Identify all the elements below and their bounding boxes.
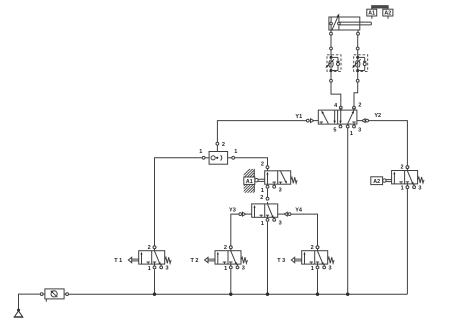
3/2-way roller valve A2 bbox=[392, 165, 424, 192]
svg-text:T 2: T 2 bbox=[191, 258, 199, 264]
pilot Y3 (left) bbox=[229, 208, 251, 217]
svg-text:2: 2 bbox=[261, 162, 264, 168]
svg-text:3: 3 bbox=[418, 185, 421, 191]
junction T1 bbox=[153, 293, 156, 296]
wire T2 port 1 to supply line bbox=[230, 269, 232, 293]
pilot Y4 (right) bbox=[278, 208, 303, 217]
svg-text:2: 2 bbox=[311, 245, 314, 251]
wire T3 port 1 to supply line bbox=[317, 269, 319, 293]
junction 1V5 bbox=[266, 293, 269, 296]
3/2-way manual valve T1 bbox=[114, 245, 171, 272]
wire cylinder right port to flow control 1V2 bbox=[357, 35, 359, 47]
svg-text:3: 3 bbox=[165, 266, 168, 272]
wire 5/2 valve port 1 to supply line bbox=[347, 128, 349, 294]
svg-text:3: 3 bbox=[279, 221, 282, 227]
svg-text:A2: A2 bbox=[384, 11, 391, 17]
shuttle valve 1V4 (OR) bbox=[199, 142, 237, 164]
wire shuttle valve left port to T1 port 2 bbox=[155, 158, 203, 246]
3/2-way roller valve A1 (actuated) bbox=[261, 162, 297, 194]
wire shuttle valve right port to limit valve A1 port 2 bbox=[235, 158, 269, 169]
wire roller valve A2 port 1 to supply line bbox=[406, 189, 408, 295]
roller actuator with label A2 bbox=[371, 177, 392, 185]
svg-text:A1: A1 bbox=[368, 11, 375, 17]
pilot Y2 (right) bbox=[357, 113, 381, 122]
wire pilot Y4 to T3 port 2 bbox=[291, 214, 318, 246]
svg-text:3: 3 bbox=[279, 188, 282, 194]
3/2-way manual valve T3 bbox=[277, 245, 334, 272]
junction 5/2 supply bbox=[346, 293, 349, 296]
wire pilot Y2 to roller valve A2 port 2 bbox=[369, 121, 409, 169]
one-way flow control valve 1V1 bbox=[325, 47, 341, 82]
port labels 5/2 valve bbox=[333, 103, 361, 138]
svg-text:1: 1 bbox=[199, 149, 202, 155]
svg-text:1: 1 bbox=[234, 149, 237, 155]
actuated roller with wall (A1) bbox=[243, 165, 266, 215]
5/2-way double pilot valve 1V3 bbox=[318, 108, 357, 128]
wire valve 1V5 port 1 to supply line bbox=[267, 222, 269, 294]
svg-text:1: 1 bbox=[350, 131, 353, 137]
svg-text:Y3: Y3 bbox=[229, 208, 236, 214]
service unit 0Z (filter/regulator, simplified) bbox=[40, 289, 68, 302]
wire air supply to service unit bbox=[19, 294, 41, 309]
svg-text:1: 1 bbox=[401, 186, 404, 192]
pilot Y1 (left) bbox=[295, 114, 318, 123]
svg-text:A2: A2 bbox=[373, 179, 380, 185]
wire limit valve A1 port 1 to valve 1V5 port 2 bbox=[266, 189, 269, 200]
svg-text:2: 2 bbox=[400, 165, 403, 171]
svg-text:1: 1 bbox=[261, 221, 264, 227]
svg-text:2: 2 bbox=[260, 195, 263, 201]
svg-text:T 1: T 1 bbox=[114, 258, 122, 264]
supply line (manifold) bbox=[69, 293, 408, 295]
svg-text:1: 1 bbox=[148, 266, 151, 272]
svg-text:3: 3 bbox=[242, 266, 245, 272]
3/2-way manual valve T2 bbox=[191, 245, 248, 272]
svg-text:1: 1 bbox=[311, 266, 314, 272]
svg-text:Y1: Y1 bbox=[295, 114, 302, 120]
svg-text:Y4: Y4 bbox=[295, 208, 303, 214]
3/2-way double pilot valve 1V5 bbox=[252, 195, 282, 227]
svg-text:3: 3 bbox=[328, 266, 331, 272]
wire cylinder left port to flow control 1V1 bbox=[330, 35, 332, 47]
one-way flow control valve 1V2 bbox=[352, 47, 368, 82]
svg-text:A1: A1 bbox=[246, 179, 253, 185]
junction T2 bbox=[229, 293, 232, 296]
cylinder 1A (double-acting, adjustable cushioning) bbox=[329, 14, 371, 36]
svg-text:1: 1 bbox=[224, 266, 227, 272]
svg-text:Y2: Y2 bbox=[374, 113, 381, 119]
svg-text:2: 2 bbox=[224, 245, 227, 251]
svg-text:3: 3 bbox=[358, 128, 361, 134]
svg-text:2: 2 bbox=[358, 103, 361, 109]
wire shuttle valve port 2 to pilot Y1 bbox=[217, 121, 306, 143]
wire flow control 1V2 to valve port 2 bbox=[353, 82, 358, 109]
distance rule with position marks A1 A2 bbox=[367, 6, 393, 19]
svg-text:1: 1 bbox=[261, 188, 264, 194]
svg-text:T 3: T 3 bbox=[277, 258, 285, 264]
wire flow control 1V1 to valve port 4 bbox=[331, 82, 342, 109]
svg-text:2: 2 bbox=[148, 245, 151, 251]
junction T3 bbox=[316, 293, 319, 296]
wire pilot Y3 to T2 port 2 bbox=[231, 214, 239, 246]
wire T1 port 1 to supply line bbox=[154, 269, 156, 293]
svg-text:2: 2 bbox=[222, 142, 225, 148]
svg-text:5: 5 bbox=[333, 128, 336, 134]
compressed air supply 0Z1 bbox=[14, 309, 23, 317]
